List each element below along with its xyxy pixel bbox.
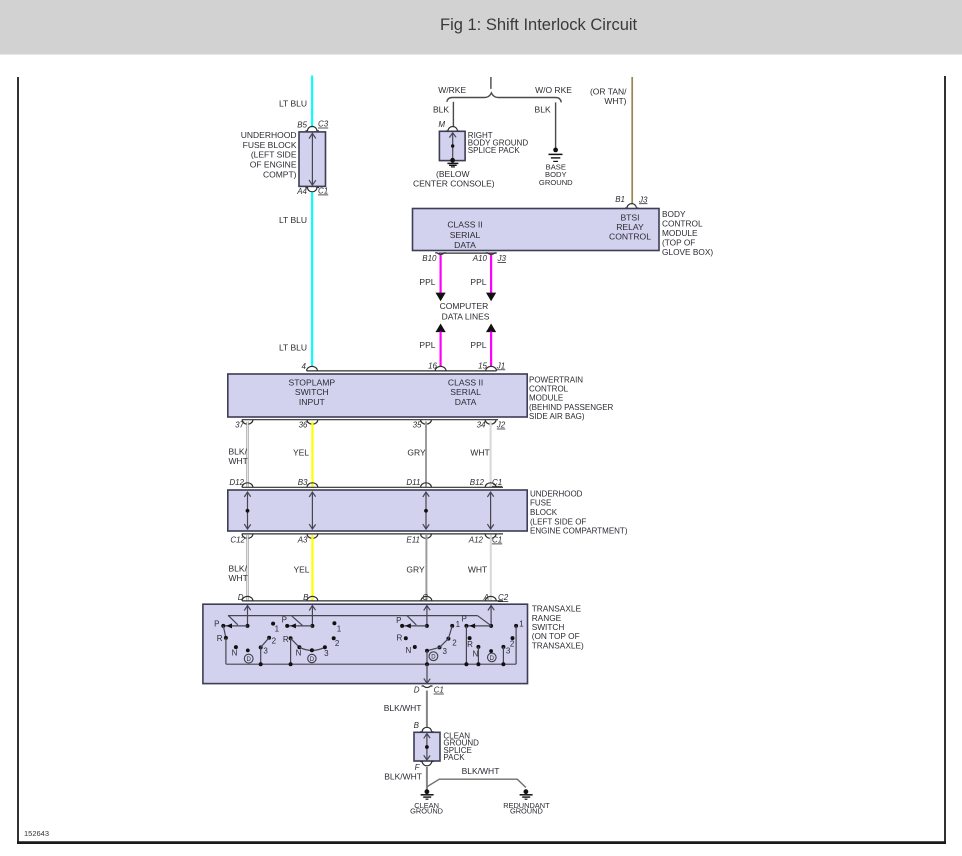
- wire BLK/WHT col1 lower: [246, 535, 248, 601]
- group4 1 down link: [515, 626, 517, 664]
- svg-text:1: 1: [275, 624, 280, 633]
- svg-text:BLK/: BLK/: [229, 564, 248, 574]
- wire tan BTSI relay control: [631, 77, 633, 204]
- label BTSI RELAY CONTROL: [609, 213, 651, 242]
- group2 contact 3 dot: [323, 645, 327, 649]
- svg-text:TRANSAXLE): TRANSAXLE): [532, 640, 584, 650]
- svg-text:(LEFT SIDE: (LEFT SIDE: [251, 150, 297, 160]
- svg-text:Fig 1: Shift Interlock Circuit: Fig 1: Shift Interlock Circuit: [440, 16, 638, 34]
- group1 R down link: [225, 638, 227, 664]
- connector C1 top line: [242, 486, 503, 488]
- switch group 1 incoming wire D: [247, 605, 249, 626]
- group2 P line: [287, 625, 312, 627]
- group1 contact 1 dot: [271, 622, 275, 626]
- connector J1 dome pin15: [486, 366, 497, 371]
- svg-text:COMPUTER: COMPUTER: [440, 301, 489, 311]
- border frame right: [944, 76, 946, 844]
- svg-text:CONTROL: CONTROL: [662, 219, 703, 229]
- output arrow down: [424, 678, 430, 683]
- wire WHT col4 upper: [490, 422, 492, 487]
- wire YEL col2 upper: [311, 422, 313, 487]
- group3 P line: [402, 625, 427, 627]
- svg-text:(BELOW: (BELOW: [436, 169, 470, 179]
- svg-text:D: D: [490, 656, 495, 662]
- body control module box U-BCM: [413, 209, 660, 251]
- svg-text:WHT): WHT): [604, 96, 626, 106]
- svg-text:R: R: [217, 634, 223, 643]
- wire BLK/WHT to splice: [426, 691, 428, 727]
- svg-text:D: D: [414, 686, 420, 695]
- connector F bowl: [420, 762, 433, 766]
- group4 wiper diagonal: [478, 616, 492, 626]
- connector J3 bottom line: [439, 252, 497, 254]
- group2 contact P dot: [285, 624, 289, 628]
- fuse block element D12-C12: [244, 492, 250, 530]
- connector J1 dome pin16: [435, 366, 446, 371]
- svg-text:GROUND: GROUND: [410, 807, 443, 816]
- group2 arc mid dot: [310, 648, 314, 652]
- group2 R down link: [290, 638, 292, 664]
- connector J2 bottom line: [242, 419, 498, 421]
- switch common bus top: [228, 615, 478, 617]
- svg-text:BTSI: BTSI: [620, 213, 639, 223]
- group1 contact 3 dot: [259, 645, 263, 649]
- svg-text:E11: E11: [406, 536, 420, 545]
- arrowhead up left: [436, 324, 446, 333]
- svg-text:FUSE: FUSE: [530, 499, 551, 508]
- connector B arc: [420, 727, 433, 731]
- group3 wiper diagonal: [407, 616, 416, 625]
- svg-text:OF ENGINE: OF ENGINE: [250, 160, 297, 170]
- group2 arrow up: [309, 606, 315, 611]
- svg-text:B3: B3: [298, 478, 308, 487]
- svg-text:MODULE: MODULE: [662, 228, 698, 238]
- connector C1 bottom line: [242, 533, 503, 535]
- svg-text:B12: B12: [470, 478, 485, 487]
- connector J2 bowl 37: [242, 420, 253, 425]
- fuse arrow down: [309, 180, 316, 185]
- group4 wire contact dot: [489, 624, 493, 628]
- svg-text:P: P: [462, 615, 467, 624]
- svg-text:COMPT): COMPT): [263, 170, 297, 180]
- svg-text:FUSE BLOCK: FUSE BLOCK: [243, 140, 297, 150]
- svg-text:1: 1: [456, 620, 461, 629]
- svg-text:CONTROL: CONTROL: [529, 385, 569, 394]
- wire PPL right down: [490, 255, 492, 293]
- group4 arrow up: [488, 606, 494, 611]
- svg-text:C12: C12: [230, 536, 245, 545]
- label STOPLAMP SWITCH INPUT: [288, 377, 335, 407]
- group2 contact 1 dot: [332, 621, 336, 625]
- svg-text:WHT: WHT: [229, 573, 248, 583]
- wire PPL left down: [440, 255, 442, 293]
- wire GRY col3 upper: [425, 422, 427, 487]
- group2 N-3 arc: [299, 647, 325, 650]
- switch bottom bus: [226, 663, 516, 665]
- svg-text:YEL: YEL: [293, 447, 309, 457]
- svg-text:P: P: [282, 616, 287, 625]
- svg-text:MODULE: MODULE: [529, 394, 563, 403]
- group3 1-2-3 chain: [427, 626, 452, 651]
- underhood fuse block box: [228, 490, 527, 531]
- group1 arrowhead left: [226, 623, 232, 628]
- svg-text:A12: A12: [468, 536, 484, 545]
- fuse block element D11-E11: [423, 492, 429, 530]
- alternatives brace: [447, 93, 561, 103]
- wire WHT col4 lower: [490, 535, 492, 601]
- group4 N down link: [477, 647, 479, 664]
- label TRANSAXLE RANGE SWITCH (ON TOP OF TRANSAXLE): [532, 604, 584, 651]
- svg-text:DATA: DATA: [454, 240, 476, 250]
- group4 P line: [466, 625, 491, 627]
- connector J2 bowl 35: [421, 420, 432, 425]
- group4 dot above circled D: [489, 649, 493, 653]
- svg-text:R: R: [467, 640, 473, 649]
- svg-text:PPL: PPL: [470, 340, 486, 350]
- svg-text:WHT: WHT: [468, 565, 487, 575]
- svg-text:CLASS II: CLASS II: [447, 220, 482, 230]
- svg-text:GRY: GRY: [407, 447, 426, 457]
- svg-text:N: N: [406, 646, 412, 655]
- fuse block element B12-A12: [487, 492, 493, 530]
- group4 contact R dot: [468, 636, 472, 640]
- svg-text:36: 36: [299, 421, 308, 430]
- wire PPL left lower: [440, 332, 442, 367]
- svg-text:3: 3: [324, 649, 329, 658]
- group3 contact R dot: [404, 636, 408, 640]
- group1 dot above circled D: [246, 649, 250, 653]
- label POWERTRAIN CONTROL MODULE (BEHIND PASSENGER SIDE AIR BAG): [529, 375, 614, 421]
- group1 arrow up: [244, 606, 250, 611]
- svg-text:BLK/: BLK/: [229, 446, 248, 456]
- group4 bus junction dot N: [476, 662, 480, 666]
- svg-text:B1: B1: [615, 195, 625, 204]
- group3 down link: [426, 651, 428, 665]
- connector J1 top line: [307, 370, 497, 372]
- svg-text:D11: D11: [406, 478, 420, 487]
- svg-text:GRY: GRY: [406, 565, 425, 575]
- group2 contact 2 dot: [332, 636, 336, 640]
- svg-text:J3: J3: [497, 254, 507, 263]
- connector B1 arc: [625, 204, 638, 208]
- connector C1 arc: [305, 188, 319, 192]
- svg-text:DATA LINES: DATA LINES: [442, 311, 490, 321]
- group3 arrow up: [424, 606, 430, 611]
- svg-text:3: 3: [443, 647, 448, 656]
- svg-text:37: 37: [235, 421, 244, 430]
- connector C1 dome D12: [242, 483, 253, 488]
- svg-text:SPLICE PACK: SPLICE PACK: [468, 146, 521, 155]
- border frame left: [17, 77, 19, 844]
- wire BLK right branch: [555, 102, 557, 148]
- group3 bus junction dot: [425, 662, 429, 666]
- transaxle range switch box: [203, 604, 528, 683]
- svg-text:152643: 152643: [24, 829, 49, 838]
- group4 contact P dot: [464, 624, 468, 628]
- label RIGHT BODY GROUND SPLICE PACK: [468, 131, 529, 155]
- svg-text:2: 2: [335, 639, 340, 648]
- fuse arrow up: [309, 133, 316, 138]
- wire BLK/WHT col1 upper: [246, 422, 248, 487]
- connector J2 bowl 36: [307, 420, 318, 425]
- group3 contact 1 dot: [450, 624, 454, 628]
- svg-text:SWITCH: SWITCH: [295, 387, 329, 397]
- svg-text:CLASS II: CLASS II: [448, 377, 483, 387]
- connector C2 dome C: [421, 596, 432, 601]
- underhood fuse block C3 box: [299, 132, 326, 187]
- group4 contact 2 dot: [511, 636, 515, 640]
- label UNDERHOOD FUSE BLOCK (LEFT SIDE OF ENGINE COMPARTMENT): [530, 489, 628, 535]
- svg-text:WHT: WHT: [229, 456, 248, 466]
- right body ground splice pack box: [439, 131, 465, 160]
- group4 P down link: [465, 626, 467, 664]
- svg-text:P: P: [214, 619, 219, 628]
- svg-text:BLK: BLK: [535, 104, 551, 114]
- group3 chain end dot: [425, 649, 429, 653]
- svg-text:YEL: YEL: [293, 565, 309, 575]
- group4 contact 1 dot: [514, 624, 518, 628]
- svg-text:(OR TAN/: (OR TAN/: [590, 87, 627, 97]
- wire stub above brace: [490, 77, 492, 89]
- connector C1 dome B3: [307, 483, 318, 488]
- group4 3 down link: [502, 647, 504, 664]
- svg-text:BLK/WHT: BLK/WHT: [384, 703, 422, 713]
- connector M arc: [446, 126, 459, 130]
- group3 contact N dot: [413, 645, 417, 649]
- border frame bottom: [17, 841, 946, 844]
- splice ground bars: [447, 163, 458, 167]
- connector C1 bowl C12: [242, 534, 253, 539]
- splice arrow up: [424, 734, 430, 739]
- arrowhead up right: [486, 324, 496, 333]
- group1 3 down link: [260, 647, 262, 664]
- splice wire: [452, 133, 454, 160]
- svg-text:35: 35: [413, 421, 422, 430]
- group2 contact N dot: [297, 645, 301, 649]
- svg-text:SIDE AIR BAG): SIDE AIR BAG): [529, 412, 585, 421]
- connector C2 dome B: [307, 596, 318, 601]
- output wire down: [426, 664, 428, 683]
- group2 wire contact dot: [310, 624, 314, 628]
- arrowhead down left: [436, 293, 446, 302]
- switch group 4 incoming wire A: [490, 605, 492, 626]
- powertrain control module box: [228, 374, 527, 417]
- svg-text:J2: J2: [496, 421, 506, 430]
- fuse block element B3-A3: [309, 492, 315, 530]
- wire PPL right lower: [490, 332, 492, 367]
- group3 circled D: [429, 652, 438, 661]
- group4 bus junction dot 3: [501, 662, 505, 666]
- connector C1 bowl transaxle output: [422, 686, 433, 688]
- connector J3 bowl B10: [435, 253, 446, 255]
- svg-text:CENTER CONSOLE): CENTER CONSOLE): [413, 178, 495, 188]
- group1 bus junction dot: [259, 662, 263, 666]
- label BODY CONTROL MODULE (TOP OF GLOVE BOX): [662, 209, 713, 257]
- svg-text:C3: C3: [318, 120, 329, 129]
- splice element wire: [426, 733, 428, 760]
- svg-text:PPL: PPL: [419, 340, 435, 350]
- svg-text:SERIAL: SERIAL: [450, 230, 481, 240]
- svg-text:BLK: BLK: [433, 104, 449, 114]
- label BASE BODY GROUND: [539, 162, 573, 187]
- svg-text:RELAY: RELAY: [616, 222, 644, 232]
- svg-text:UNDERHOOD: UNDERHOOD: [530, 489, 583, 498]
- svg-text:PACK: PACK: [443, 753, 465, 762]
- svg-text:A10: A10: [472, 254, 488, 263]
- svg-text:BLOCK: BLOCK: [530, 508, 558, 517]
- svg-text:LT BLU: LT BLU: [279, 342, 307, 352]
- svg-text:J1: J1: [496, 361, 505, 370]
- svg-text:BLK/WHT: BLK/WHT: [384, 771, 422, 781]
- label UNDERHOOD FUSE BLOCK (left side of engine compt): [241, 130, 297, 180]
- group3 contact 2 dot: [446, 637, 450, 641]
- group4 contact 3 dot: [501, 645, 505, 649]
- connector C2 dome A: [485, 596, 496, 601]
- svg-text:CONTROL: CONTROL: [609, 232, 651, 242]
- svg-text:LT BLU: LT BLU: [279, 98, 307, 108]
- connector J1 dome pin4: [307, 366, 318, 370]
- group1 P-R link: [223, 626, 226, 638]
- connector C1 bowl E11: [421, 534, 432, 539]
- splice arrow up: [449, 133, 456, 138]
- label CLEAN GROUND SPLICE PACK: [443, 731, 479, 762]
- svg-text:D: D: [247, 657, 252, 663]
- connector C1 dome D11: [421, 483, 432, 488]
- splice junction dot: [451, 144, 454, 147]
- group2 arrowhead left: [290, 623, 296, 628]
- svg-text:34: 34: [477, 421, 486, 430]
- svg-text:A4: A4: [296, 187, 307, 196]
- group1 contact P dot: [221, 624, 225, 628]
- title bar: [0, 0, 962, 55]
- group1 contact 2 dot: [267, 636, 271, 640]
- svg-text:4: 4: [302, 362, 307, 371]
- group4 bus junction dot P: [464, 662, 468, 666]
- switch group 3 incoming wire C: [426, 605, 428, 626]
- label CLASS II SERIAL DATA (PCM): [448, 377, 483, 407]
- svg-text:A3: A3: [297, 536, 308, 545]
- group1 3-2 link: [261, 638, 269, 648]
- group1 P line: [223, 625, 247, 627]
- svg-text:B5: B5: [297, 120, 307, 129]
- svg-text:2: 2: [272, 637, 277, 646]
- arrowhead down right: [486, 293, 496, 302]
- group2 bus junction dot: [289, 662, 293, 666]
- svg-text:2: 2: [510, 640, 515, 649]
- connector J3 bowl A10: [486, 253, 497, 255]
- connector C1 bowl A12: [485, 534, 496, 539]
- group2 wiper diagonal: [292, 616, 303, 626]
- group1 circled D: [244, 654, 253, 663]
- svg-text:STOPLAMP: STOPLAMP: [288, 377, 335, 387]
- group2 circled D: [308, 654, 316, 663]
- connector C2 dome D: [242, 596, 253, 601]
- svg-text:C1: C1: [492, 478, 502, 487]
- svg-text:3: 3: [263, 647, 268, 656]
- group4 contact N dot: [476, 645, 480, 649]
- svg-text:BLK/WHT: BLK/WHT: [462, 766, 500, 776]
- wire to clean ground: [426, 767, 428, 790]
- connector J2 bowl 34: [485, 420, 496, 425]
- group1 contact N dot: [234, 645, 238, 649]
- connector C3 arc: [305, 126, 319, 130]
- wire LT BLU mid segment: [311, 192, 313, 367]
- svg-text:2: 2: [452, 638, 457, 647]
- wire BLK left branch: [452, 102, 454, 127]
- splice ground dot: [450, 158, 455, 163]
- svg-text:N: N: [296, 648, 302, 657]
- svg-text:PPL: PPL: [419, 277, 435, 287]
- switch group 2 incoming wire B: [311, 605, 313, 626]
- group3 contact P dot: [400, 624, 404, 628]
- redundant ground symbol: [524, 789, 529, 794]
- connector C1 bowl A3: [307, 534, 318, 539]
- svg-text:GROUND: GROUND: [539, 178, 573, 187]
- svg-text:UNDERHOOD: UNDERHOOD: [241, 130, 297, 140]
- clean ground splice pack box: [414, 732, 440, 761]
- svg-text:(BEHIND PASSENGER: (BEHIND PASSENGER: [529, 403, 614, 412]
- wire YEL col2 lower: [311, 535, 313, 601]
- group3 contact 3 dot: [438, 645, 442, 649]
- svg-text:N: N: [232, 649, 238, 658]
- group1 wiper diagonal: [229, 616, 238, 625]
- svg-text:POWERTRAIN: POWERTRAIN: [529, 375, 583, 384]
- svg-text:P: P: [396, 616, 401, 625]
- wire branch to redundant ground: [427, 779, 526, 787]
- svg-text:ENGINE COMPARTMENT): ENGINE COMPARTMENT): [530, 527, 628, 536]
- group4 arrowhead left: [469, 623, 475, 628]
- svg-text:N: N: [473, 650, 479, 659]
- group4 circled D: [488, 653, 497, 662]
- svg-text:C1: C1: [492, 536, 502, 545]
- svg-text:BODY: BODY: [662, 209, 686, 219]
- splice junction dot: [425, 745, 429, 749]
- group2 R-N link: [291, 638, 300, 647]
- svg-text:W/O RKE: W/O RKE: [535, 85, 572, 95]
- fuse element wire: [311, 133, 313, 186]
- svg-text:W/RKE: W/RKE: [438, 85, 466, 95]
- label REDUNDANT GROUND: [503, 801, 550, 816]
- svg-text:(TOP OF: (TOP OF: [662, 238, 695, 248]
- svg-text:M: M: [438, 120, 445, 129]
- svg-text:WHT: WHT: [470, 447, 489, 457]
- svg-text:R: R: [283, 635, 289, 644]
- svg-text:(LEFT SIDE OF: (LEFT SIDE OF: [530, 517, 586, 526]
- group1 wire contact dot: [246, 624, 250, 628]
- group2 contact R dot: [289, 636, 293, 640]
- connector C1 dome B12: [485, 483, 496, 488]
- svg-text:B10: B10: [422, 254, 437, 263]
- svg-text:C1: C1: [318, 187, 328, 196]
- svg-text:GROUND: GROUND: [510, 807, 543, 816]
- svg-text:R: R: [397, 633, 403, 642]
- wire GRY col3 lower: [425, 535, 427, 601]
- group1 contact R dot: [224, 636, 228, 640]
- svg-text:1: 1: [519, 620, 524, 629]
- svg-text:B: B: [414, 721, 420, 730]
- label CLEAN GROUND: [410, 801, 443, 816]
- connector C2 top line: [242, 600, 503, 602]
- svg-text:D: D: [431, 655, 436, 661]
- splice arrow down: [424, 755, 430, 760]
- svg-text:J3: J3: [638, 195, 648, 204]
- svg-text:C1: C1: [434, 686, 444, 695]
- svg-text:PPL: PPL: [470, 277, 486, 287]
- base body ground symbol: [553, 148, 558, 153]
- svg-text:GLOVE BOX): GLOVE BOX): [662, 247, 713, 257]
- wire LT BLU top segment: [311, 76, 313, 128]
- svg-text:DATA: DATA: [455, 397, 477, 407]
